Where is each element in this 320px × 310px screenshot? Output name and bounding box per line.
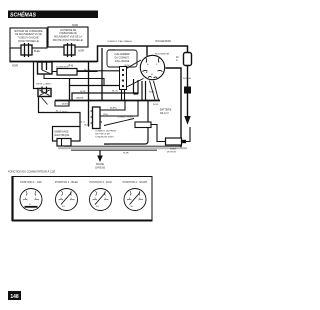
svg-text:COMMUT. DE PRISE: COMMUT. DE PRISE [95, 131, 117, 133]
svg-text:(P.N): (P.N) [68, 65, 73, 68]
relay K1 [38, 62, 53, 74]
wire pdf left vertical [88, 62, 90, 127]
seat switch S2 [38, 89, 51, 97]
wire left edge box1 down [9, 48, 11, 62]
svg-text:SCHÉMAS: SCHÉMAS [10, 11, 36, 19]
svg-text:SOLÉNOÏDE: SOLÉNOÏDE [56, 66, 69, 69]
interlock rect A [135, 122, 151, 128]
svg-text:BL./J.: BL./J. [80, 122, 86, 124]
wire PDF right feeds [102, 101, 125, 111]
wire top bus [98, 46, 188, 62]
switch terminal stubs [143, 58, 163, 79]
wire switch drop b [137, 80, 139, 94]
wire strip feed y77.5 [70, 79, 105, 86]
wire harness skirt diag left [150, 81, 156, 101]
legend box [12, 177, 152, 221]
wire switch drop d [145, 81, 147, 101]
svg-text:NOIR: NOIR [123, 153, 129, 155]
svg-text:M L: M L [131, 206, 134, 208]
wire diag strip low to switch [127, 79, 144, 88]
wire switch drop a [133, 79, 135, 94]
svg-text:MOTEUR DE COMMANDE: MOTEUR DE COMMANDE [14, 30, 43, 33]
svg-text:POSITION 4 - START: POSITION 4 - START [123, 180, 148, 184]
brake interlock rect [166, 138, 182, 145]
wire bus y100 [55, 100, 160, 102]
svg-text:MOTEUR: MOTEUR [167, 152, 177, 154]
wire switch right to battery branch [166, 68, 182, 148]
wire resistor to node [77, 71, 98, 73]
svg-text:ROUGE/NOIR: ROUGE/NOIR [156, 40, 172, 43]
svg-text:NOIR: NOIR [153, 104, 159, 106]
wire diag strip to switch [127, 60, 142, 69]
svg-text:NOIR: NOIR [84, 125, 90, 127]
svg-text:NOIR: NOIR [104, 144, 110, 146]
position 4 circle [124, 189, 146, 211]
svg-text:NOIR: NOIR [80, 91, 86, 93]
wire interlock to brake connector [151, 125, 166, 142]
wire x148 drop loop [104, 101, 148, 145]
wire battery drop [187, 66, 189, 120]
svg-text:NOIR: NOIR [12, 65, 18, 68]
svg-text:VUE ARRIÈRE: VUE ARRIÈRE [114, 53, 130, 56]
PDF switch S3 [93, 107, 101, 129]
position 3 circle [90, 189, 112, 211]
position 2 circle [56, 189, 78, 211]
wire bus y93 [72, 93, 138, 101]
svg-text:POSITION 3 - RUN: POSITION 3 - RUN [89, 180, 111, 184]
svg-text:COMMANDE DE: COMMANDE DE [59, 32, 77, 35]
module box 2 [48, 27, 88, 47]
wire ground bus dark lower [71, 149, 157, 151]
wire strip drop a [121, 90, 123, 101]
wire key switch feed from top [146, 46, 148, 56]
wire vertical x33 [34, 62, 39, 89]
connector J1 under box 1 [21, 45, 32, 55]
connector strip pins [120, 67, 127, 90]
connector loop under bus [55, 101, 69, 107]
svg-text:ROUGE/NOIR: ROUGE/NOIR [155, 54, 170, 56]
svg-text:COMMUT. FREIN: COMMUT. FREIN [117, 117, 134, 119]
clutch connector [57, 139, 71, 147]
wire bus A horizontal [9, 61, 97, 63]
fuse F1 20A [184, 53, 192, 66]
callout rounded box VUE ARRIERE [107, 50, 137, 67]
svg-text:CHÂSSIS: CHÂSSIS [95, 167, 106, 170]
svg-text:FONCTION DU COMMUTATEUR À CLÉ: FONCTION DU COMMUTATEUR À CLÉ [8, 169, 55, 174]
wire switch drop c [141, 81, 143, 101]
wire relay drop [44, 74, 70, 79]
svg-text:DU COMMUT.: DU COMMUT. [115, 58, 130, 60]
svg-text:POSITION 2 - BLEU: POSITION 2 - BLEU [55, 180, 78, 184]
legend box bottom edge [12, 220, 153, 222]
wire harness skirt diag right [154, 81, 159, 100]
svg-text:NOIR: NOIR [78, 50, 84, 53]
svg-text:D'ALLUMAGE: D'ALLUMAGE [115, 60, 130, 63]
wire relay right stub [52, 71, 57, 73]
svg-text:ÉLECTRIQUE: ÉLECTRIQUE [55, 134, 70, 137]
svg-text:TONDEUSE (PDF): TONDEUSE (PDF) [95, 137, 114, 139]
svg-text:BL.-J.: BL.-J. [56, 111, 62, 113]
svg-text:M L: M L [96, 206, 99, 208]
svg-text:COMMUT. D’ALLUMAGE: COMMUT. D’ALLUMAGE [107, 40, 132, 43]
svg-text:JAUNE: JAUNE [76, 97, 84, 100]
clutch box [53, 127, 81, 142]
wire vertical x69.5 [69, 79, 71, 101]
ignition switch circle [140, 55, 164, 79]
svg-text:"VOIES À GAUCHE": "VOIES À GAUCHE" [18, 37, 40, 40]
diagonal wire to interlock [104, 119, 134, 126]
battery arrow [184, 116, 190, 125]
wire seat to clutch feed [39, 97, 81, 127]
svg-text:(FONCTIONNELLE): (FONCTIONNELLE) [18, 41, 39, 43]
svg-text:148: 148 [10, 294, 19, 300]
svg-text:DE FORCE DE: DE FORCE DE [95, 134, 110, 136]
svg-text:M L: M L [62, 206, 65, 208]
svg-text:(NOIR): (NOIR) [62, 104, 69, 106]
svg-text:BLEU: BLEU [34, 50, 41, 53]
svg-text:BLANC: BLANC [110, 107, 118, 110]
wire bus y85.5 [70, 85, 120, 87]
wire strip drop b [124, 90, 126, 101]
wire loop under switch [134, 93, 139, 95]
page number box [8, 291, 21, 300]
svg-text:LANTERNE DE: LANTERNE DE [60, 29, 77, 32]
wire PDF right mid [102, 101, 138, 117]
svg-text:MOUVEMENT VUE DE LA: MOUVEMENT VUE DE LA [54, 36, 82, 39]
svg-text:20: 20 [176, 57, 179, 59]
svg-text:MASSE: MASSE [96, 163, 105, 166]
svg-text:FREIN: FREIN [170, 149, 177, 151]
svg-text:NOIR: NOIR [149, 92, 155, 94]
svg-text:SIÈGE (+) AVEC: SIÈGE (+) AVEC [36, 83, 52, 86]
ground bus grey [58, 147, 187, 149]
svg-text:BL./N.: BL./N. [112, 91, 118, 93]
svg-text:POSITION 1 - OFF: POSITION 1 - OFF [20, 180, 42, 184]
svg-text:EMBRAYAGE: EMBRAYAGE [55, 131, 70, 134]
wire vertical x102 [101, 48, 103, 101]
svg-text:DE 12 V: DE 12 V [160, 112, 169, 115]
ground arrow [99, 150, 101, 156]
header bar SCHEMAS [8, 11, 98, 19]
legend box left edge [11, 176, 13, 221]
connector block on battery wire [184, 87, 191, 94]
svg-text:A: A [176, 59, 178, 62]
connector J2 under box 2 [64, 45, 75, 55]
seat switch actuator lever [42, 98, 48, 105]
wire strip feed y70.5 [77, 70, 120, 72]
svg-text:(P.N): (P.N) [103, 114, 108, 116]
svg-text:BLEU: BLEU [62, 112, 68, 114]
svg-text:DROITE (FONCTIONNELLE): DROITE (FONCTIONNELLE) [53, 40, 84, 42]
svg-text:DE MOUVEMENT VU DE: DE MOUVEMENT VU DE [15, 34, 42, 36]
resistor / solenoid R1 [57, 69, 77, 76]
wire brake to battery branch [186, 127, 190, 142]
position 1 circle [20, 189, 42, 211]
wire ground bus dark upper [64, 145, 181, 147]
module box 1 [10, 28, 47, 48]
svg-text:ROUGE: ROUGE [183, 78, 192, 80]
